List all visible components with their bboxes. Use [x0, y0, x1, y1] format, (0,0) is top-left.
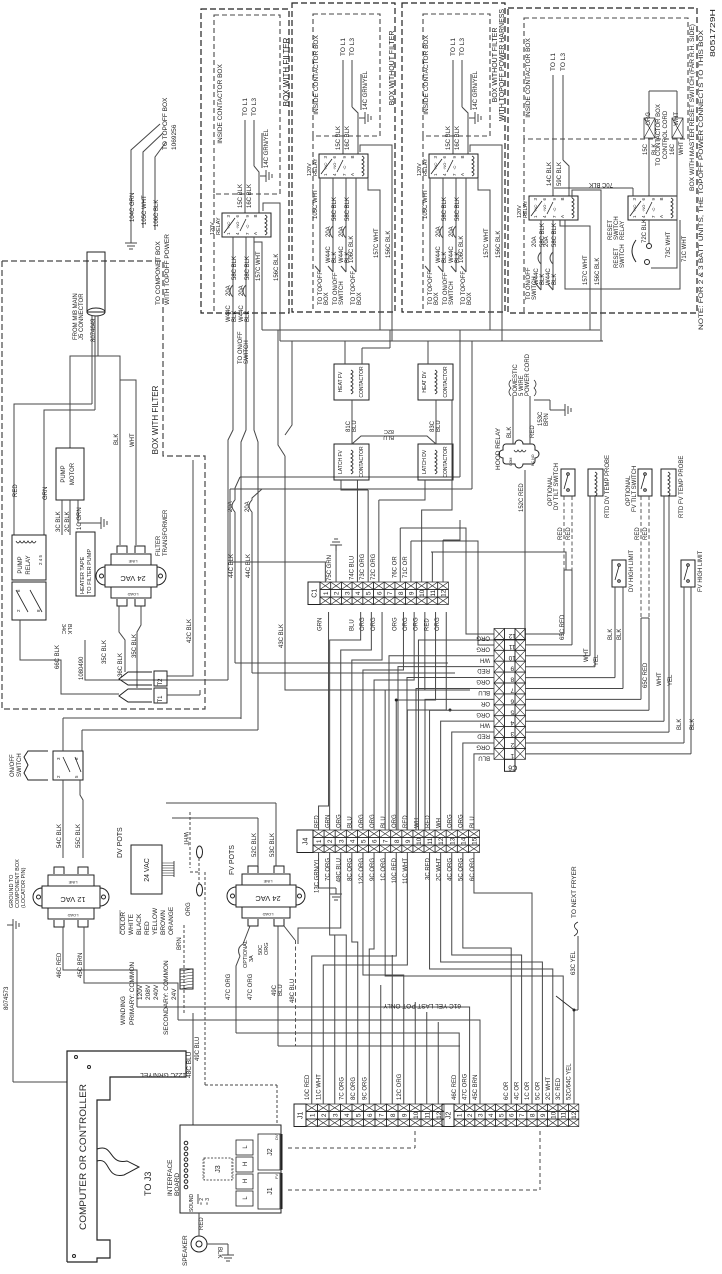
svg-text:47C ORG: 47C ORG — [463, 1073, 469, 1100]
svg-text:TO COMPONET BOX: TO COMPONET BOX — [155, 241, 162, 305]
svg-text:16C BLK: 16C BLK — [247, 184, 253, 208]
svg-text:1C GRN: 1C GRN — [77, 507, 83, 530]
svg-text:1: 1 — [510, 752, 514, 759]
svg-text:35C BLK: 35C BLK — [132, 634, 138, 658]
svg-text:OPTIONAL: OPTIONAL — [243, 940, 249, 968]
svg-text:OR: OR — [480, 700, 490, 706]
wire J4p13 to J2p7 — [452, 853, 522, 1105]
svg-text:BLU: BLU — [278, 984, 284, 996]
svg-text:J4: J4 — [303, 837, 310, 845]
svg-text:11: 11 — [508, 643, 515, 650]
connector C6 — [494, 629, 505, 640]
svg-text:10C RED: 10C RED — [305, 1074, 311, 1100]
svg-text:48C BLU: 48C BLU — [186, 1051, 193, 1078]
svg-text:9C ORG: 9C ORG — [362, 1077, 368, 1100]
svg-text:1C OR: 1C OR — [525, 1081, 531, 1100]
svg-text:9: 9 — [510, 665, 514, 672]
wire C1 pin1 up — [230, 489, 325, 582]
wire xfmr sec a — [119, 606, 125, 672]
svg-text:20A: 20A — [544, 236, 550, 247]
svg-text:9: 9 — [408, 591, 415, 595]
svg-text:BOX WITHOUT FILTER: BOX WITHOUT FILTER — [492, 28, 499, 103]
wire heat fv top — [344, 341, 346, 364]
contactor HEAT DV — [418, 364, 453, 400]
svg-text:20A: 20A — [449, 226, 455, 237]
wire C1 pin8 76C OR — [399, 528, 401, 582]
svg-text:HEAT DV: HEAT DV — [422, 371, 428, 393]
S3 wire 157C WHT — [478, 178, 490, 330]
wire J4p14 to J2p6 — [463, 853, 511, 1105]
box S1 BOX WITH FILTER outline — [201, 9, 289, 313]
connector C1 — [308, 582, 320, 605]
svg-text:8051729H: 8051729H — [710, 9, 717, 57]
bus 1046 — [278, 1045, 300, 1047]
wire dv hl b — [622, 587, 624, 689]
connector J4 — [297, 830, 313, 853]
svg-text:24 VAC: 24 VAC — [144, 858, 151, 882]
svg-text:CONTACTOR: CONTACTOR — [443, 366, 449, 398]
svg-text:BLK: BLK — [245, 311, 251, 322]
svg-text:11: 11 — [430, 589, 437, 596]
svg-text:5: 5 — [355, 1113, 362, 1117]
svg-text:BLU: BLU — [383, 434, 394, 440]
svg-text:BOX WITHOUT FILTER: BOX WITHOUT FILTER — [389, 31, 396, 106]
svg-text:FV TILT SWITCH: FV TILT SWITCH — [632, 466, 638, 512]
svg-text:ON/OFF: ON/OFF — [10, 754, 16, 777]
box DV POTS 24 VAC — [131, 845, 162, 894]
svg-text:65C RED: 65C RED — [643, 662, 649, 688]
svg-text:82C: 82C — [384, 428, 394, 434]
wire J2p3 45C BRN — [178, 1020, 480, 1104]
svg-text:RED: RED — [144, 921, 151, 935]
svg-text:44C BLK: 44C BLK — [246, 554, 252, 578]
wire S4 156C BLK — [572, 190, 601, 341]
wire WHT branch — [120, 380, 136, 545]
svg-text:10: 10 — [413, 1111, 420, 1119]
wire bus left drop a — [278, 330, 285, 456]
svg-text:BLU: BLU — [381, 816, 387, 828]
svg-text:RED: RED — [199, 1217, 205, 1230]
svg-text:2C WHT: 2C WHT — [436, 858, 442, 881]
S3 wire 106C BLK — [465, 178, 467, 272]
svg-text:12C ORG: 12C ORG — [397, 1073, 403, 1100]
wire C1 pin4 74C BLU — [356, 480, 358, 582]
svg-text:156C BLK: 156C BLK — [595, 258, 601, 285]
svg-text:3: 3 — [332, 1113, 339, 1117]
svg-text:BLK: BLK — [332, 252, 338, 263]
wire S4 W44C a — [540, 220, 542, 290]
svg-text:TRANSFORMER: TRANSFORMER — [163, 509, 169, 556]
wire hood BLK — [512, 396, 514, 444]
svg-text:106C BLK: 106C BLK — [349, 236, 355, 263]
computer box — [67, 1051, 186, 1262]
wire switch bus730 — [81, 730, 83, 751]
svg-text:4: 4 — [344, 1113, 351, 1117]
svg-text:GRN: GRN — [43, 487, 49, 500]
wire 82C BLU — [352, 436, 436, 444]
switch DV TILT — [561, 469, 575, 496]
svg-text:122C GRN/YEL: 122C GRN/YEL — [140, 1071, 186, 1078]
svg-text:BOARD: BOARD — [174, 1173, 181, 1196]
svg-text:45C BRN: 45C BRN — [78, 953, 84, 978]
svg-text:J1: J1 — [267, 1187, 274, 1195]
wire mib c — [97, 316, 99, 356]
S2 inside contactor box — [313, 14, 380, 136]
relay S1 120V — [222, 213, 271, 237]
svg-text:12 VAC: 12 VAC — [60, 895, 86, 904]
svg-text:COLOR: COLOR — [120, 912, 127, 935]
svg-text:C6: C6 — [508, 763, 517, 770]
svg-text:15C: 15C — [643, 143, 649, 155]
svg-text:74C BLU: 74C BLU — [349, 556, 355, 580]
svg-text:47C ORG: 47C ORG — [226, 973, 232, 1000]
svg-text:8074573: 8074573 — [4, 986, 10, 1010]
box S4 outline — [508, 8, 697, 313]
svg-text:BLK: BLK — [608, 629, 614, 640]
svg-text:BLU: BLU — [349, 619, 355, 631]
svg-text:TO L1: TO L1 — [242, 98, 249, 116]
interface board — [180, 1125, 281, 1213]
svg-text:4C ORG: 4C ORG — [448, 858, 454, 881]
svg-text:59C BLK: 59C BLK — [557, 162, 563, 186]
box S4 inside contactor box — [524, 18, 688, 139]
svg-text:4C OR: 4C OR — [515, 1081, 521, 1100]
svg-text:55C BLK: 55C BLK — [76, 824, 82, 848]
svg-text:7: 7 — [378, 1113, 385, 1117]
svg-text:BOX: BOX — [467, 292, 473, 305]
svg-text:20A: 20A — [226, 285, 232, 296]
S2 wire 157C WHT — [368, 178, 380, 330]
svg-text:ORANGE: ORANGE — [168, 906, 175, 935]
svg-text:RELAY: RELAY — [216, 217, 222, 235]
svg-text:16C BLK: 16C BLK — [345, 126, 351, 150]
board J1 — [258, 1173, 280, 1209]
svg-text:RED: RED — [558, 527, 564, 540]
svg-text:WHT: WHT — [679, 141, 685, 155]
svg-text:ORG: ORG — [476, 634, 490, 640]
wire J4p11 to J2p10 — [430, 853, 553, 1105]
svg-text:5: 5 — [498, 1113, 505, 1117]
svg-text:14C GRN/YEL: 14C GRN/YEL — [473, 70, 479, 110]
svg-text:LATCH DV: LATCH DV — [422, 449, 428, 474]
svg-text:·C·: ·C· — [452, 164, 457, 170]
wire C1 pin6 72C ORG — [378, 500, 380, 582]
svg-text:35C BLK: 35C BLK — [102, 640, 108, 664]
svg-text:H: H — [243, 1179, 249, 1183]
svg-text:INSIDE CONTACTOR BOX: INSIDE CONTACTOR BOX — [217, 64, 224, 144]
svg-text:SWITCH: SWITCH — [449, 281, 455, 305]
svg-text:RED: RED — [643, 527, 649, 540]
wire 1080490 — [85, 640, 119, 680]
wire ground to box — [13, 1081, 67, 1083]
wire bus right drop a — [459, 330, 461, 477]
svg-text:157C WHT: 157C WHT — [484, 228, 490, 258]
dashed divider S1 inner — [213, 194, 215, 313]
wire C1 pin12 up — [442, 540, 444, 582]
S2 wire 58C BLK b — [345, 178, 347, 272]
svg-text:1C ORG: 1C ORG — [381, 858, 387, 881]
svg-text:105C WHT: 105C WHT — [142, 195, 148, 225]
svg-text:42C BLK: 42C BLK — [187, 619, 193, 643]
wire heat fv right — [361, 348, 363, 364]
svg-text:156C BLK: 156C BLK — [274, 254, 280, 281]
svg-text:J1: J1 — [298, 1111, 305, 1119]
svg-text:BLK: BLK — [617, 629, 623, 640]
svg-text:INSIDE CONTACTOR BOX: INSIDE CONTACTOR BOX — [423, 35, 430, 115]
board conn H1 — [236, 1157, 253, 1172]
svg-text:RELAY: RELAY — [313, 158, 319, 176]
wire rtd fv a — [663, 496, 665, 721]
svg-text:BLK: BLK — [507, 427, 513, 438]
svg-text:A: A — [350, 173, 355, 176]
svg-text:ORG: ORG — [392, 814, 398, 828]
svg-text:FILTER: FILTER — [156, 535, 162, 556]
svg-text:3: 3 — [510, 730, 514, 737]
dv pots lamp b — [197, 884, 203, 896]
svg-text:6: 6 — [376, 591, 383, 595]
contactor LATCH DV — [418, 444, 453, 480]
wire rtd dv a — [589, 496, 591, 656]
wire S1 156C BLK — [263, 203, 280, 341]
svg-text:(LOCATOR PIN): (LOCATOR PIN) — [21, 867, 27, 908]
svg-text:MOTOR: MOTOR — [70, 462, 76, 485]
svg-text:58C BLK: 58C BLK — [442, 197, 448, 221]
svg-text:H: H — [243, 1162, 249, 1166]
svg-text:·C·: ·C· — [651, 206, 656, 212]
svg-text:11: 11 — [424, 1111, 431, 1118]
svg-text:7: 7 — [510, 686, 514, 693]
svg-text:BLK: BLK — [442, 252, 448, 263]
svg-text:71C WHT: 71C WHT — [682, 235, 688, 262]
S2 wire 58C BLK a — [332, 178, 334, 272]
svg-text:A: A — [659, 215, 664, 218]
svg-text:RELAY: RELAY — [523, 200, 529, 218]
svg-text:B: B — [560, 197, 565, 200]
S3 inside contactor box — [423, 14, 490, 136]
svg-text:RED: RED — [477, 733, 490, 739]
svg-text:TO L3: TO L3 — [349, 38, 356, 56]
box S1 inside contactor box — [214, 15, 280, 194]
board J3 — [204, 1158, 232, 1180]
svg-text:WINDING: WINDING — [120, 996, 127, 1025]
svg-text:HOOD RELAY: HOOD RELAY — [495, 427, 502, 470]
svg-text:BLU: BLU — [478, 754, 490, 760]
svg-text:3C BLK: 3C BLK — [56, 511, 62, 532]
svg-text:4: 4 — [349, 839, 356, 843]
svg-text:BLACK: BLACK — [136, 913, 143, 935]
wire dv tilt dashed — [563, 496, 565, 570]
wire J4p2 to J1p4 — [330, 853, 347, 1105]
svg-text:3: 3 — [344, 591, 351, 595]
dashed link J1 — [288, 1189, 540, 1191]
probe RTD FV — [661, 469, 676, 496]
svg-text:15C BLK: 15C BLK — [336, 126, 342, 150]
wire S4 W44C b — [552, 220, 554, 290]
S2 dashed divider inner — [312, 136, 314, 312]
svg-text:DV HIGH LIMIT: DV HIGH LIMIT — [629, 550, 635, 592]
wire 106C BLK — [154, 165, 156, 230]
svg-text:LINE: LINE — [128, 559, 137, 564]
svg-text:8C ORG: 8C ORG — [351, 1077, 357, 1100]
wire xfmr sec b — [137, 606, 141, 688]
S2 wire 105C WHT — [319, 178, 321, 272]
svg-text:48C BLU: 48C BLU — [337, 858, 343, 882]
wire 71C WHT — [565, 220, 680, 289]
svg-text:58C BLK: 58C BLK — [455, 197, 461, 221]
S2 relay 120V — [319, 154, 368, 178]
svg-text:·NO·: ·NO· — [332, 161, 337, 170]
svg-text:10: 10 — [416, 837, 423, 845]
svg-text:WH: WH — [480, 722, 490, 728]
svg-text:1: 1 — [457, 1113, 464, 1117]
on/off switch — [53, 751, 83, 780]
terminal T1 — [154, 688, 167, 703]
svg-text:BLU: BLU — [436, 420, 442, 432]
svg-text:16C: 16C — [670, 143, 676, 155]
wire J4 pin10 from hood — [418, 640, 434, 830]
wire S1 TO L3 — [253, 120, 255, 166]
svg-text:GRN: GRN — [325, 815, 331, 828]
svg-text:BOX: BOX — [357, 292, 363, 305]
wire 83C BLU — [435, 400, 437, 444]
wire S4 TO L1 — [552, 75, 554, 196]
ground pump — [78, 522, 101, 524]
board conn H2 — [236, 1174, 253, 1189]
wires C6 pins1-5 to J4 — [474, 754, 494, 830]
probe RTD DV — [588, 469, 603, 496]
wire J2 pin12 from next fryer — [574, 1010, 578, 1104]
connector J1 — [294, 1104, 306, 1127]
svg-text:ORG: ORG — [476, 645, 490, 651]
wire S4 TO L3 — [562, 75, 564, 160]
computer screw holes — [75, 1056, 78, 1059]
terminal hatched block — [180, 969, 193, 989]
svg-text:BRN: BRN — [544, 413, 550, 426]
svg-text:BLK: BLK — [66, 624, 72, 635]
connector J2 — [442, 1104, 454, 1127]
svg-text:2: 2 — [334, 591, 341, 595]
contactor LATCH FV — [334, 444, 369, 480]
svg-text:8: 8 — [390, 1113, 397, 1117]
svg-text:240V: 240V — [153, 984, 160, 1000]
svg-text:71C OR: 71C OR — [403, 556, 409, 578]
wire BLK branch — [98, 356, 120, 545]
svg-text:DV POTS: DV POTS — [117, 827, 124, 858]
svg-text:ORG: ORG — [476, 711, 490, 717]
svg-text:SPEAKER: SPEAKER — [182, 1235, 189, 1266]
svg-text:14C GRN/YEL: 14C GRN/YEL — [264, 128, 270, 168]
svg-text:ORG: ORG — [392, 617, 398, 631]
svg-text:RED: RED — [403, 815, 409, 828]
wire J4p12 to J2p9 — [441, 853, 543, 1105]
svg-text:46C RED: 46C RED — [452, 1074, 458, 1100]
wire 53C BLK — [275, 803, 277, 866]
svg-text:SOUND: SOUND — [189, 1194, 195, 1212]
wire J2p2 47C ORG — [137, 1007, 470, 1104]
svg-text:LINE: LINE — [68, 880, 77, 885]
svg-text:B: B — [350, 155, 355, 158]
svg-text:HEATER TAPE: HEATER TAPE — [80, 556, 86, 594]
wire fv tilt dashed — [640, 496, 642, 618]
wire S4 157C WHT — [560, 220, 590, 330]
svg-text:CONTACTOR: CONTACTOR — [359, 446, 365, 478]
svg-text:·C·: ·C· — [342, 164, 347, 170]
wires C1 to J4 weave — [319, 612, 329, 830]
svg-text:2C WHT: 2C WHT — [546, 1077, 552, 1100]
svg-text:NC NO: NC NO — [531, 454, 535, 466]
svg-text:BLU: BLU — [348, 816, 354, 828]
pump relay — [12, 535, 46, 580]
svg-text:20A: 20A — [239, 285, 245, 296]
svg-text:2C BLK: 2C BLK — [65, 511, 71, 532]
svg-text:2: 2 — [327, 839, 334, 843]
wire 45C BRN — [84, 927, 178, 1020]
svg-text:ORG: ORG — [476, 743, 490, 749]
dashed divider S4 inner — [523, 139, 525, 313]
svg-text:RTD DV TEMP PROBE: RTD DV TEMP PROBE — [605, 455, 611, 518]
svg-text:6: 6 — [367, 1113, 374, 1117]
svg-text:43C BLK: 43C BLK — [279, 624, 285, 648]
svg-text:14C GRN/YEL: 14C GRN/YEL — [363, 70, 369, 110]
S3 dashed divider inner — [422, 136, 424, 312]
wire T1 right — [167, 694, 200, 696]
S3 wire 156C BLK — [470, 145, 502, 341]
ground J4 pin1 — [318, 853, 320, 889]
svg-text:75C GRN: 75C GRN — [327, 555, 333, 581]
wire C1 pin5 73C ORG — [367, 490, 369, 582]
svg-text:9: 9 — [401, 1113, 408, 1117]
svg-text:·NO·: ·NO· — [641, 203, 646, 212]
wire 49C BLU — [277, 926, 279, 1046]
wire 46C RED — [63, 927, 137, 1007]
svg-text:20A: 20A — [532, 236, 538, 247]
wire 42C BLK — [167, 460, 193, 676]
wire 66C BLK — [20, 620, 119, 694]
wire fv hl a — [683, 587, 685, 743]
wire mib a — [91, 316, 93, 404]
svg-text:WHITE: WHITE — [128, 913, 135, 935]
dv pots pins — [162, 862, 174, 864]
svg-text:54C BLK: 54C BLK — [57, 824, 63, 848]
svg-text:104C GRN: 104C GRN — [130, 193, 136, 222]
wire 153C BRN — [534, 399, 550, 401]
svg-text:12: 12 — [441, 589, 448, 597]
svg-text:10C RED: 10C RED — [392, 857, 398, 883]
svg-text:49C BLU: 49C BLU — [195, 1037, 201, 1061]
dv pots lamp a — [197, 846, 203, 858]
S2 wire TO L3 — [351, 60, 353, 107]
svg-text:7C ORG: 7C ORG — [325, 858, 331, 881]
svg-text:A: A — [253, 232, 258, 235]
svg-text:72C ORG: 72C ORG — [371, 553, 377, 580]
S2 wire TO L1 — [342, 60, 344, 154]
wire J4p7 to J2p11 — [385, 853, 563, 1105]
svg-text:RED: RED — [635, 527, 641, 540]
wire RED — [14, 404, 92, 535]
svg-text:WITH TOPOFF POWER HARNESS: WITH TOPOFF POWER HARNESS — [499, 9, 506, 121]
svg-text:WHT: WHT — [657, 672, 663, 686]
svg-text:5: 5 — [510, 708, 514, 715]
limit FV HIGH — [681, 560, 695, 587]
svg-text:INTERFACE: INTERFACE — [167, 1159, 174, 1196]
svg-text:66C BLK: 66C BLK — [55, 645, 61, 669]
speaker — [191, 1236, 207, 1252]
svg-text:2: 2 — [321, 1113, 328, 1117]
svg-text:TO J3: TO J3 — [143, 1172, 153, 1196]
cable FROM MIB MAIN J5 CONNECTOR — [87, 252, 105, 312]
svg-text:8C ORG: 8C ORG — [348, 858, 354, 881]
wire 48C BLU — [284, 926, 295, 940]
